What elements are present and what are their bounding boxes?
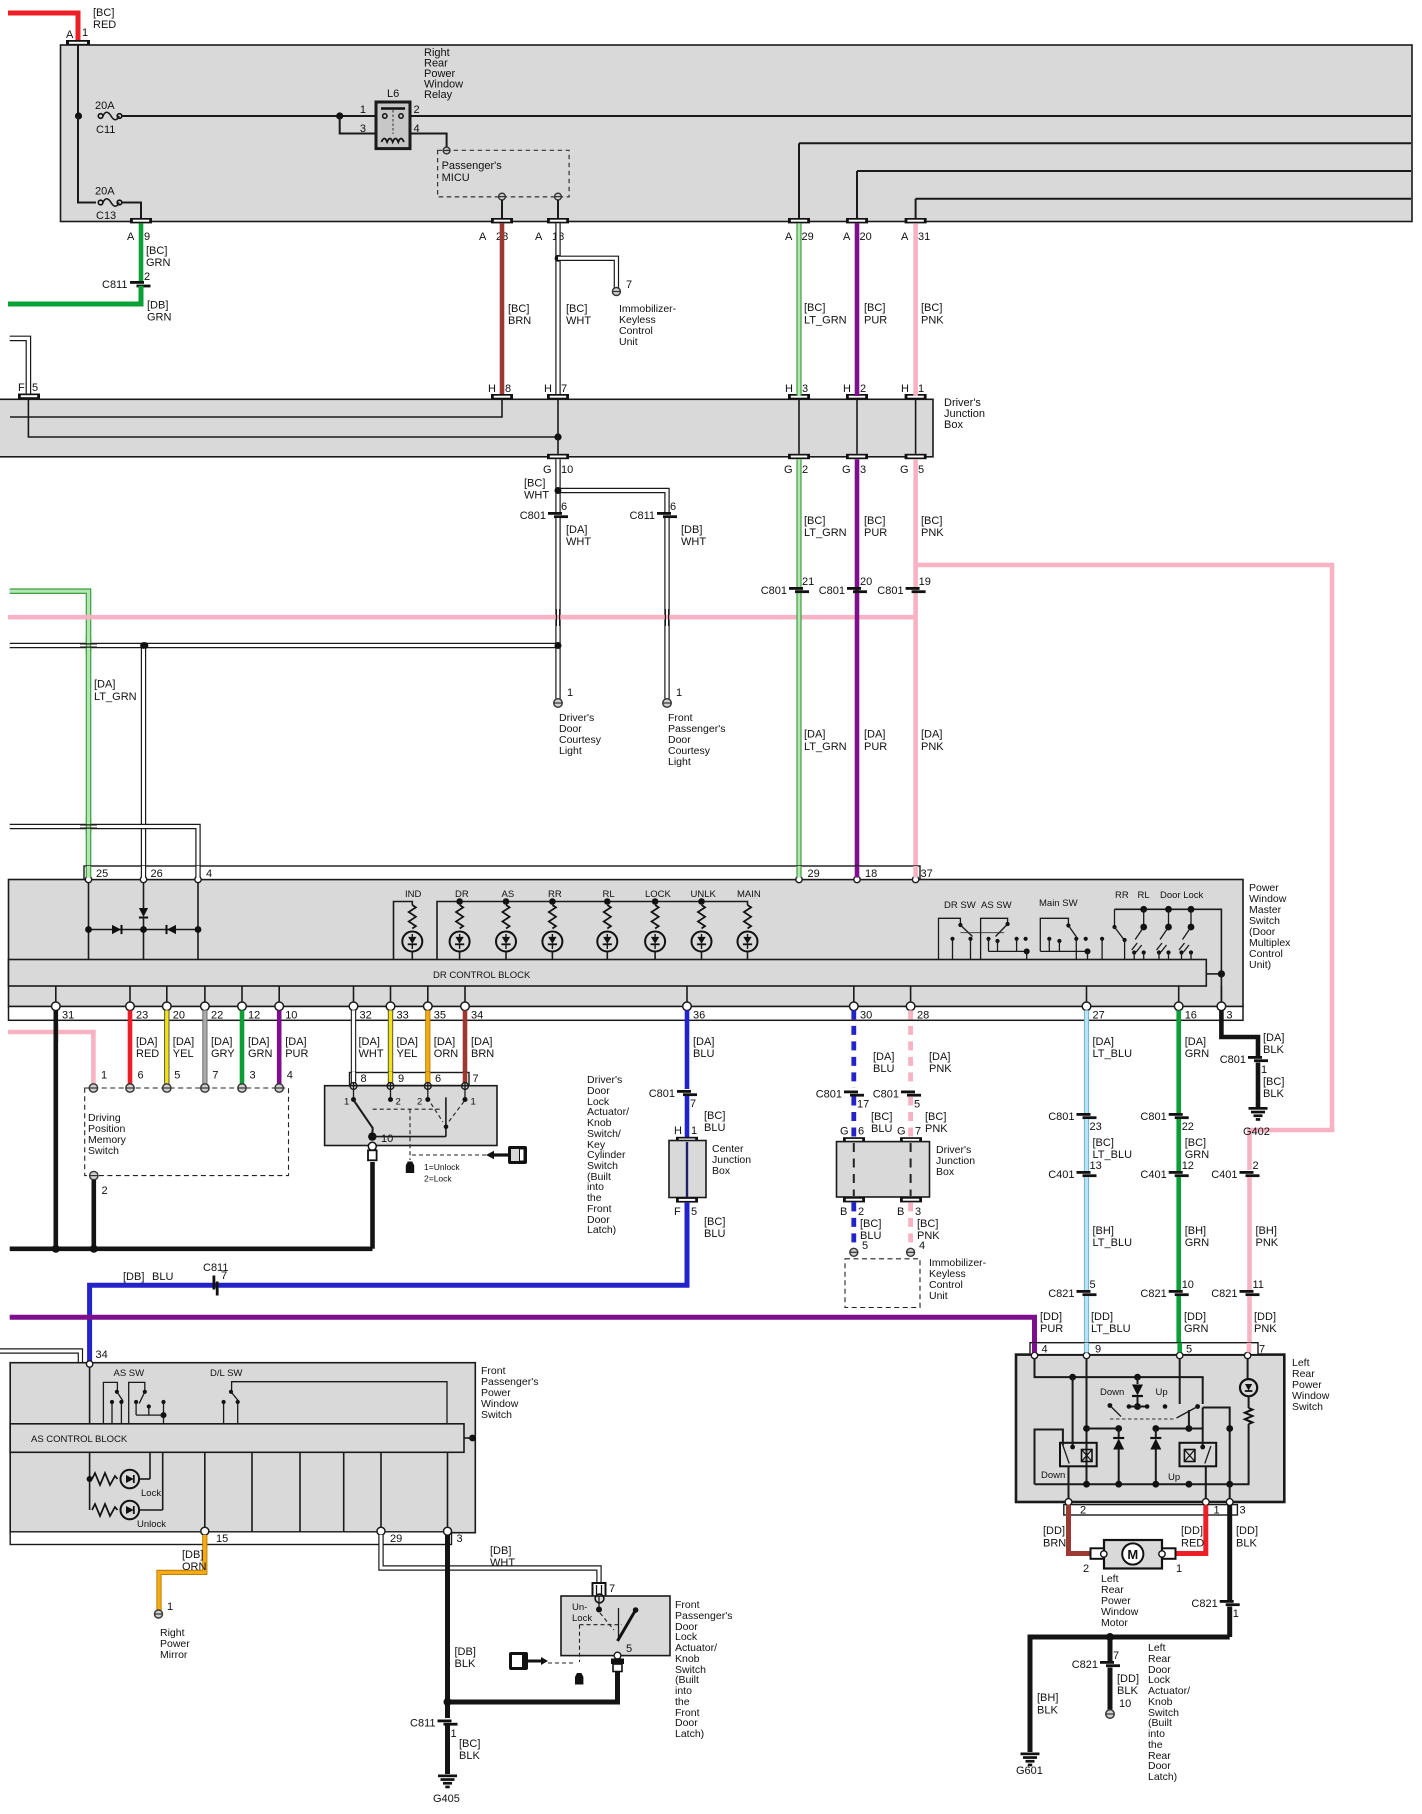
svg-text:B: B	[840, 1206, 847, 1218]
linkage dashed latch	[580, 1613, 623, 1662]
wire dashed PNK to immobilizer 4	[908, 1202, 913, 1248]
svg-text:3: 3	[802, 383, 808, 395]
pin master switch terminal 20	[163, 986, 186, 1022]
svg-text:26: 26	[151, 868, 163, 880]
pin latch 5	[614, 1643, 632, 1659]
wire 35 [DA] ORN	[425, 1010, 430, 1083]
svg-text:[DA]: [DA]	[173, 1036, 194, 1048]
connector A18	[535, 218, 569, 243]
svg-text:[BC]: [BC]	[804, 515, 825, 527]
svg-text:5: 5	[918, 464, 924, 476]
box Front Passenger's Door Lock Actuator	[561, 1596, 670, 1656]
pin Right Power Mirror 1	[155, 1601, 174, 1618]
wire ground bus horizontal	[1030, 1637, 1230, 1752]
wire [DB] BLK pin3 down	[445, 1535, 450, 1718]
connector C801 pin 17 (dashed blue)	[816, 1089, 870, 1111]
wire bus drop to A29	[799, 142, 1411, 144]
switch DR SW	[939, 900, 1005, 960]
pin master switch terminal 22	[201, 986, 224, 1022]
svg-text:15: 15	[216, 1533, 228, 1545]
svg-text:[BH]: [BH]	[1256, 1225, 1277, 1237]
svg-text:[DA]: [DA]	[1263, 1032, 1284, 1044]
svg-text:Latch): Latch)	[675, 1728, 704, 1740]
switch RL	[1138, 890, 1172, 960]
pin master switch terminal 25	[85, 868, 108, 883]
node courtesy junction redraw	[140, 642, 147, 649]
wire MICU pin to A28	[501, 200, 503, 218]
wire [DD] PUR long horizontal	[10, 1317, 1035, 1353]
key symbol passenger	[509, 1652, 548, 1670]
connector C811 pin 1	[410, 1718, 457, 1741]
indicator LED IND	[402, 889, 422, 960]
wire actuator internal link	[372, 1097, 448, 1136]
label [BC] PNK below B3	[917, 1218, 940, 1242]
wire relay Down to pin 2	[1068, 1466, 1070, 1499]
svg-text:[DD]: [DD]	[1043, 1525, 1065, 1537]
wire [DB] WHT down to courtesy light	[664, 518, 669, 699]
svg-text:PNK: PNK	[1254, 1323, 1277, 1335]
svg-text:C811: C811	[410, 1718, 435, 1730]
node mid f	[1226, 1425, 1233, 1432]
svg-text:25: 25	[96, 868, 108, 880]
svg-text:H: H	[674, 1125, 682, 1137]
node diode row left	[85, 926, 92, 933]
wire 1 [DA] PNK to memory switch	[8, 1032, 93, 1084]
diode LR right (up)	[1150, 1429, 1161, 1485]
wire GRN C801-C401	[1176, 1119, 1181, 1171]
svg-text:PNK: PNK	[1256, 1237, 1279, 1249]
wire [BH] PNK	[1247, 1177, 1252, 1290]
master switch bottom connector strip	[9, 1007, 1244, 1021]
connector B3	[897, 1197, 922, 1218]
node mid e	[1186, 1425, 1193, 1432]
pin LR 1	[1202, 1499, 1219, 1517]
wire latch to black bus	[448, 1672, 618, 1703]
node ground bus	[1106, 1633, 1114, 1641]
node diode row right	[195, 926, 202, 933]
svg-text:BLK: BLK	[1037, 1705, 1058, 1717]
svg-text:1: 1	[1214, 1505, 1220, 1517]
svg-text:PUR: PUR	[285, 1048, 308, 1060]
connector G3	[842, 454, 868, 476]
diode LR center (down)	[1132, 1377, 1143, 1406]
motor Left Rear Power Window Motor	[1083, 1540, 1182, 1575]
svg-text:BLK: BLK	[1263, 1088, 1284, 1100]
svg-text:Switch: Switch	[481, 1409, 512, 1421]
connector C401 pin 2	[1211, 1160, 1259, 1181]
svg-text:5: 5	[1090, 1279, 1096, 1291]
wire pin34 to AS block	[89, 1367, 91, 1424]
svg-text:Relay: Relay	[424, 89, 453, 101]
svg-text:AS CONTROL BLOCK: AS CONTROL BLOCK	[31, 1434, 128, 1445]
svg-text:[BC]: [BC]	[704, 1216, 725, 1228]
label [BC] GRN	[1185, 1137, 1210, 1161]
svg-text:8: 8	[505, 383, 511, 395]
svg-text:BLK: BLK	[455, 1658, 476, 1670]
wire coil return left bracket	[1035, 1430, 1063, 1485]
label [BC] BLU below B2	[860, 1218, 881, 1242]
wire [BC] PUR G3 down	[855, 459, 860, 877]
svg-text:WHT: WHT	[566, 536, 591, 548]
svg-text:H: H	[901, 383, 909, 395]
svg-text:20A: 20A	[95, 186, 115, 198]
svg-text:Down: Down	[1100, 1387, 1124, 1398]
label 1=Unlock 2=Lock	[424, 1162, 460, 1184]
svg-text:[DD]: [DD]	[1117, 1673, 1139, 1685]
svg-text:29: 29	[390, 1533, 402, 1545]
box Left Rear Power Window Switch	[1016, 1355, 1284, 1502]
wire LR contact rail	[1129, 1406, 1147, 1408]
pin master switch terminal 16	[1174, 986, 1197, 1022]
svg-text:PUR: PUR	[1040, 1323, 1063, 1335]
pin actuator 9	[387, 1073, 404, 1108]
pin MICU top terminal	[443, 147, 450, 154]
svg-text:[BC]: [BC]	[524, 478, 545, 490]
switch arm knob actuator	[354, 1100, 373, 1134]
indicator LED RL	[597, 889, 617, 960]
svg-text:37: 37	[921, 868, 933, 880]
connector C801 pin 21	[761, 576, 815, 597]
svg-text:[BC]: [BC]	[925, 1111, 946, 1123]
svg-text:C821: C821	[1140, 1288, 1166, 1300]
svg-text:[DA]: [DA]	[211, 1036, 232, 1048]
svg-text:[BC]: [BC]	[917, 1218, 938, 1230]
svg-text:C801: C801	[873, 1089, 899, 1101]
svg-text:[DA]: [DA]	[864, 729, 885, 741]
pin immobilizer 7	[612, 279, 632, 296]
svg-text:2: 2	[396, 1097, 401, 1108]
svg-text:3: 3	[1240, 1505, 1246, 1517]
svg-text:C401: C401	[1048, 1169, 1074, 1181]
svg-text:PUR: PUR	[864, 741, 887, 753]
wire [DD] BRN pin2 to motor	[1069, 1505, 1093, 1554]
connector H7	[544, 383, 569, 399]
wire pin 3 drop	[1229, 1484, 1231, 1499]
wire junction box internal F5-G10	[28, 399, 558, 437]
svg-text:GRN: GRN	[248, 1048, 273, 1060]
node rail g	[1083, 1481, 1090, 1488]
connector G10	[543, 454, 573, 476]
wire [BC] PNK crossover horizontal	[8, 615, 916, 620]
wire A1 to fuse junction	[77, 45, 79, 116]
wire [BC] PNK A31 to H1	[913, 223, 918, 396]
svg-text:5: 5	[914, 1099, 920, 1111]
wire MICU pin to A18	[557, 200, 559, 218]
label Left Rear Door Lock Actuator	[1148, 1642, 1190, 1783]
svg-text:[BC]: [BC]	[146, 245, 167, 257]
wire black bus to door lock actuator pin 10	[370, 1162, 375, 1249]
pin master switch terminal 33	[386, 986, 409, 1022]
connector H8	[488, 383, 513, 399]
svg-text:2: 2	[858, 1206, 864, 1218]
svg-text:6: 6	[561, 501, 567, 513]
connector C401 pin 13	[1048, 1160, 1102, 1181]
wire 3 [DA] BLK	[1221, 1010, 1258, 1056]
wire 31 [DA] BLK	[53, 1010, 58, 1248]
svg-text:Main SW: Main SW	[1039, 898, 1078, 909]
svg-text:G: G	[842, 464, 851, 476]
svg-text:[DA]: [DA]	[434, 1036, 455, 1048]
connector H1	[901, 383, 927, 399]
node WHT branch junction	[555, 255, 562, 262]
wire white pair down to master switch pin 26	[141, 646, 146, 878]
svg-text:35: 35	[434, 1010, 446, 1022]
svg-text:C801: C801	[1140, 1111, 1166, 1123]
node black bus at 31	[52, 1245, 60, 1253]
svg-text:Unit: Unit	[929, 1290, 948, 1302]
svg-text:WHT: WHT	[359, 1048, 384, 1060]
svg-text:BRN: BRN	[471, 1048, 494, 1060]
pin LR switch 5	[1177, 1344, 1193, 1359]
svg-text:WHT: WHT	[524, 490, 549, 502]
wire 27 [DA] LT_BLU	[1084, 1010, 1089, 1113]
svg-text:C801: C801	[1220, 1054, 1246, 1066]
label [DA] PUR col	[864, 729, 887, 754]
wire pin25 into box	[88, 883, 90, 960]
svg-text:D/L SW: D/L SW	[210, 1368, 242, 1379]
svg-text:[BC]: [BC]	[860, 1218, 881, 1230]
pin AS 34	[86, 1349, 107, 1367]
switch arm latch	[618, 1607, 639, 1641]
svg-text:1: 1	[101, 1070, 107, 1082]
relay Down box	[1060, 1377, 1097, 1466]
svg-text:RR: RR	[1115, 890, 1129, 901]
pin Driver's Door Courtesy Light	[554, 687, 573, 707]
node WHT C811 branch (top)	[555, 487, 562, 494]
switch Door Lock	[1160, 890, 1204, 960]
node LR rail a	[1069, 1374, 1076, 1381]
wire white pair lower loop to pin 4	[10, 827, 198, 878]
linkage dashed actuator	[373, 1102, 464, 1161]
svg-text:[DA]: [DA]	[94, 679, 115, 691]
wire black bus horizontal	[10, 1247, 373, 1252]
wire [BC] LT_GRN G2 down	[796, 459, 801, 877]
svg-text:2: 2	[414, 104, 420, 116]
wire [DB] WHT pair to latch connector	[381, 1535, 599, 1583]
svg-text:23: 23	[136, 1010, 148, 1022]
svg-text:9: 9	[398, 1073, 404, 1085]
svg-text:10: 10	[561, 464, 573, 476]
svg-text:DR CONTROL BLOCK: DR CONTROL BLOCK	[433, 970, 531, 981]
node relay branch junction	[336, 112, 343, 119]
svg-text:A: A	[479, 231, 487, 243]
wire LR top rail from pin4	[1035, 1359, 1203, 1404]
svg-text:RED: RED	[93, 19, 116, 31]
pin AS 3	[444, 1527, 463, 1545]
pin actuator 7	[462, 1073, 479, 1108]
connector G2	[784, 454, 810, 476]
pin master switch terminal 32	[349, 986, 372, 1022]
wire [DD] RED pin1 to motor	[1174, 1505, 1206, 1554]
svg-text:Down: Down	[1041, 1470, 1065, 1481]
svg-text:C811: C811	[630, 510, 655, 522]
svg-text:1: 1	[676, 687, 682, 699]
svg-text:GRN: GRN	[147, 312, 172, 324]
wire WHT branch to immobilizer pin 7	[558, 258, 616, 288]
svg-text:[BC]: [BC]	[921, 515, 942, 527]
wire pin4 into box	[197, 883, 199, 960]
wire dashed through box (blue col)	[853, 1143, 855, 1196]
svg-text:G405: G405	[433, 1793, 460, 1805]
wire H2 through box to G3	[856, 399, 858, 453]
svg-text:11: 11	[1253, 1279, 1264, 1291]
svg-text:BLK: BLK	[1263, 1044, 1284, 1056]
wire [BC] RED battery feed	[8, 13, 78, 41]
svg-text:C811: C811	[102, 279, 127, 291]
box Driver's Junction Box	[0, 399, 933, 457]
svg-text:RED: RED	[1181, 1538, 1204, 1550]
AS bottom connector strip	[10, 1532, 451, 1545]
svg-text:C801: C801	[761, 585, 787, 597]
switch D/L SW	[210, 1368, 447, 1424]
pin MICU bottom terminal 18	[555, 193, 562, 200]
wire Unlock circuit	[92, 1452, 166, 1530]
wire WHT branch to C811 pin6	[558, 491, 667, 513]
wire [BC] PUR A20 to H2	[855, 223, 860, 396]
switch window lock	[1100, 909, 1127, 959]
connector C821 pin 7	[1072, 1650, 1120, 1671]
pin memory switch 7	[201, 1070, 219, 1093]
label [DA] LT_GRN col	[804, 729, 847, 754]
connector C821 pin 1	[1191, 1598, 1239, 1620]
svg-text:LT_GRN: LT_GRN	[804, 315, 847, 327]
svg-text:[BC]: [BC]	[1263, 1076, 1284, 1088]
svg-text:2: 2	[1080, 1505, 1086, 1517]
svg-text:LT_BLU: LT_BLU	[1093, 1048, 1133, 1060]
svg-text:YEL: YEL	[397, 1048, 418, 1060]
lamp LR switch	[1240, 1359, 1257, 1485]
svg-text:Up: Up	[1156, 1387, 1168, 1398]
node internal junction at G10 column	[554, 433, 561, 440]
connector C811 pin 6	[630, 501, 677, 522]
box Driver's Door Lock Actuator	[325, 1086, 497, 1146]
connector C401 pin 12	[1140, 1160, 1194, 1181]
svg-text:[BH]: [BH]	[1185, 1225, 1206, 1237]
pin master switch terminal 4	[195, 868, 212, 883]
pin memory switch 5	[163, 1070, 181, 1093]
wire [DD] GRN	[1176, 1296, 1181, 1353]
connector plug below pin 5	[611, 1659, 624, 1672]
svg-text:1: 1	[451, 1728, 457, 1740]
wire 10 [DA] PUR	[277, 1010, 282, 1084]
svg-text:Latch): Latch)	[587, 1224, 616, 1236]
connector F5 center box	[674, 1197, 698, 1218]
svg-text:34: 34	[96, 1349, 108, 1361]
connector A31	[901, 218, 930, 243]
svg-text:C801: C801	[877, 585, 903, 597]
svg-text:[DA]: [DA]	[285, 1036, 306, 1048]
svg-text:6: 6	[670, 501, 676, 513]
indicator LED DR	[450, 889, 470, 960]
svg-text:1: 1	[1261, 1064, 1267, 1076]
switch AS SW	[981, 900, 1030, 960]
node diode row mid	[140, 926, 147, 933]
svg-text:36: 36	[693, 1010, 705, 1022]
svg-text:[BC]: [BC]	[864, 302, 885, 314]
label [DB] WHT	[681, 524, 706, 548]
svg-text:G: G	[897, 1126, 906, 1138]
svg-text:[BH]: [BH]	[1093, 1225, 1114, 1237]
svg-text:BRN: BRN	[508, 315, 531, 327]
box Immobilizer-Keyless Control Unit (dashed)	[845, 1259, 920, 1308]
block DR CONTROL BLOCK	[9, 960, 1207, 987]
connector C811 pin 2	[102, 271, 151, 291]
svg-text:[BC]: [BC]	[508, 303, 529, 315]
block AS CONTROL BLOCK	[10, 1424, 464, 1453]
svg-text:LT_GRN: LT_GRN	[804, 527, 847, 539]
svg-text:G: G	[900, 464, 909, 476]
svg-text:3: 3	[1226, 1010, 1232, 1022]
svg-text:LT_BLU: LT_BLU	[1091, 1323, 1131, 1335]
svg-text:[DA]: [DA]	[693, 1036, 714, 1048]
wire 16 [DA] GRN	[1176, 1010, 1181, 1113]
svg-text:[BC]: [BC]	[1093, 1137, 1114, 1149]
svg-text:WHT: WHT	[490, 1557, 515, 1569]
wire 20 [DA] YEL	[164, 1010, 169, 1084]
ground G402	[1243, 1107, 1270, 1138]
svg-text:BLU: BLU	[871, 1123, 892, 1135]
pin master switch terminal 37	[912, 868, 932, 883]
svg-text:30: 30	[860, 1010, 872, 1022]
svg-text:[DA]: [DA]	[359, 1036, 380, 1048]
label [BC] PNK dashed col	[925, 1111, 948, 1135]
wire white pair horizontal courtesy net	[10, 643, 558, 648]
box Driving Position Memory Switch (dashed)	[85, 1088, 289, 1176]
svg-text:Unlock: Unlock	[137, 1519, 166, 1530]
svg-text:ORN: ORN	[434, 1048, 459, 1060]
svg-text:A: A	[66, 29, 74, 41]
svg-text:AS: AS	[502, 889, 515, 900]
node LR diode out	[1134, 1403, 1141, 1410]
svg-text:28: 28	[917, 1010, 929, 1022]
svg-text:10: 10	[1119, 1698, 1131, 1710]
svg-text:PUR: PUR	[864, 527, 887, 539]
wire [DB] BLU long run to AS switch	[90, 1203, 687, 1362]
svg-text:4: 4	[206, 868, 212, 880]
svg-text:1: 1	[918, 383, 924, 395]
svg-text:G: G	[840, 1126, 849, 1138]
svg-text:[BC]: [BC]	[459, 1738, 480, 1750]
pin latch internal	[595, 1594, 604, 1612]
wire dashed BLU to G6	[851, 1097, 856, 1138]
pin memory switch 3	[238, 1070, 256, 1093]
svg-text:1: 1	[471, 1097, 476, 1108]
pin master switch terminal 10	[275, 986, 298, 1022]
svg-text:H: H	[785, 383, 793, 395]
svg-text:C801: C801	[1048, 1111, 1074, 1123]
svg-text:[DB]: [DB]	[182, 1549, 203, 1561]
wire [DB] GRN to left margin	[8, 286, 141, 304]
wire [BC] BRN A28 to H8	[500, 223, 505, 396]
svg-text:MAIN: MAIN	[737, 889, 761, 900]
svg-text:3: 3	[915, 1206, 921, 1218]
indicator LED LOCK	[645, 889, 672, 960]
svg-text:[DD]: [DD]	[1040, 1311, 1062, 1323]
svg-text:13: 13	[1090, 1160, 1102, 1172]
wire 33 [DA] YEL	[388, 1010, 393, 1083]
svg-text:C821: C821	[1191, 1598, 1217, 1610]
wire mid rail left	[1087, 1428, 1119, 1430]
svg-text:1: 1	[167, 1601, 173, 1613]
svg-text:29: 29	[802, 231, 814, 243]
svg-text:5: 5	[691, 1206, 697, 1218]
wire 36 [DA] BLU	[685, 1010, 690, 1089]
diode row right pointing left	[167, 925, 177, 934]
pin actuator 8	[344, 1073, 367, 1108]
node fuse feed junction	[75, 112, 82, 119]
svg-text:[DA]: [DA]	[136, 1036, 157, 1048]
wire stubs through connector strips	[89, 866, 1250, 1353]
